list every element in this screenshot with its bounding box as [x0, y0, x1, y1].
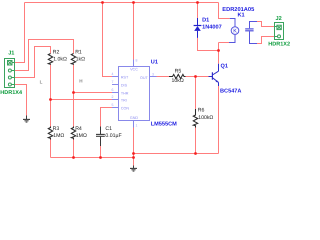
resistor R4 1MOhm — [71, 127, 75, 140]
junction D1 anode / collector node — [217, 49, 220, 52]
svg-text:7: 7 — [112, 80, 114, 84]
pin 8 VCC stub — [133, 60, 135, 67]
wire: top VCC rail — [25, 2, 219, 4]
svg-text:RST: RST — [121, 76, 129, 80]
resistor R1 1kOhm — [71, 54, 75, 65]
svg-text:4: 4 — [112, 72, 114, 76]
pin 3 OUT stub — [150, 76, 157, 78]
junction left rail at ground trunk — [132, 156, 135, 159]
svg-text:L: L — [40, 79, 43, 84]
svg-text:1.0kΩ: 1.0kΩ — [53, 57, 67, 63]
svg-text:R6: R6 — [198, 108, 205, 114]
svg-text:100kΩ: 100kΩ — [198, 115, 213, 121]
svg-text:3: 3 — [152, 72, 154, 76]
wire: R1 bottom to R4 top (THR net vertical) — [73, 65, 75, 127]
junction THR net at R1 column — [72, 91, 75, 94]
pin 7 DIS stub — [112, 84, 119, 86]
wire: Q1 collector up to coil/diode node — [218, 43, 220, 64]
wire: R3 bottom to left ground rail — [50, 140, 52, 158]
pin 5 CON stub — [112, 107, 119, 109]
svg-text:K1: K1 — [238, 13, 245, 19]
svg-text:6: 6 — [112, 88, 114, 92]
svg-text:2: 2 — [112, 95, 114, 99]
wire: ground trunk from U1 pin1 GND down to ground symbol — [133, 128, 135, 166]
svg-text:R5: R5 — [175, 68, 182, 74]
connector J1 HDR1X4 — [5, 59, 15, 88]
ground symbol (main ground) — [130, 166, 137, 172]
wire: rail to D1 cathode — [197, 3, 199, 19]
wire: J1 pin3 up and over to R2 top (L net) — [15, 47, 51, 78]
wire: rail jog down to relay coil K1 top — [219, 3, 230, 19]
pin 1 GND stub — [133, 121, 135, 128]
svg-text:U1: U1 — [151, 59, 158, 65]
junction on rail at VCC riser — [132, 1, 135, 4]
IC U1 LM555CM timer body — [112, 60, 157, 128]
connector J2 HDR1X2 — [275, 23, 284, 40]
svg-text:Q1: Q1 — [221, 63, 228, 69]
junction base node at R6 — [194, 75, 197, 78]
relay K1 coil — [229, 19, 239, 43]
resistor R2 1.0kOhm — [48, 54, 52, 65]
svg-text:TRI: TRI — [121, 99, 127, 103]
svg-text:HDR1X4: HDR1X4 — [0, 90, 23, 96]
wire: relay contact top to J2 pin1 — [257, 22, 275, 27]
svg-text:VCC: VCC — [130, 68, 138, 72]
svg-text:0.01µF: 0.01µF — [105, 133, 121, 139]
ground symbol (J1 pin4) — [23, 116, 30, 123]
wire: R5 to Q1 base node — [186, 76, 209, 78]
svg-text:1MΩ: 1MΩ — [76, 133, 87, 139]
svg-text:R3: R3 — [53, 126, 60, 132]
wire: J1 pin4 to ground — [15, 85, 27, 116]
wire: R2 bottom to R3 top (TRI net vertical) — [50, 65, 52, 127]
junction right rail at R6 — [194, 152, 197, 155]
wire: R4 bottom to left ground rail — [73, 140, 75, 158]
resistor R5 10kOhm — [169, 74, 186, 78]
pin 2 TRI stub — [112, 99, 119, 101]
wire: TRI net branch to U1 pin2 — [51, 99, 113, 101]
wire: C1 bottom to left ground rail — [100, 146, 102, 158]
capacitor C1 0.01uF — [96, 127, 105, 147]
diode D1 1N4007 — [194, 18, 202, 38]
svg-text:C1: C1 — [105, 126, 112, 132]
pin 6 THR stub — [112, 92, 119, 94]
wire: THR net branch to U1 pin6 — [74, 92, 113, 94]
svg-text:K: K — [233, 29, 237, 35]
junction left rail at C1 — [99, 156, 102, 159]
svg-text:1MΩ: 1MΩ — [53, 133, 64, 139]
svg-text:CON: CON — [121, 107, 130, 111]
svg-text:1N4007: 1N4007 — [202, 25, 222, 31]
junction left rail at R4 — [72, 156, 75, 159]
relay K1 contact — [245, 22, 257, 44]
wire: K1 coil bottom left to collector node — [219, 42, 230, 44]
svg-text:1: 1 — [136, 124, 138, 128]
junction on rail at RST riser — [101, 1, 104, 4]
svg-text:R2: R2 — [53, 50, 60, 56]
wire: J1 pin2 up and over to R1 top (H net) — [15, 40, 74, 71]
resistor R3 1MOhm — [48, 127, 52, 140]
wire: relay contact bottom to J2 pin2 — [257, 37, 275, 44]
junction TRI net at R2 column — [49, 98, 52, 101]
wire: base node down to R6 top — [195, 77, 197, 110]
wire: D1 anode down and right to collector node — [198, 38, 219, 51]
svg-text:10kΩ: 10kΩ — [172, 78, 184, 84]
svg-text:J2: J2 — [276, 16, 282, 22]
wire: bottom-right ground rail — [134, 153, 219, 155]
svg-text:D1: D1 — [202, 18, 209, 24]
transistor Q1 BC547A — [209, 64, 219, 86]
junction right rail at ground trunk — [132, 152, 135, 155]
svg-text:DIS: DIS — [121, 84, 128, 88]
wire: Q1 emitter down to right ground rail — [218, 86, 220, 154]
svg-text:J1: J1 — [8, 50, 14, 56]
svg-text:HDR1X2: HDR1X2 — [268, 42, 290, 48]
svg-text:R4: R4 — [75, 126, 82, 132]
wire: U1 pin4 RST up to rail — [103, 3, 113, 77]
resistor R6 100kOhm — [193, 109, 197, 128]
svg-text:THR: THR — [121, 92, 129, 96]
svg-text:R1: R1 — [75, 50, 82, 56]
junction on rail at D1 — [196, 1, 199, 4]
wire: R6 bottom to right ground rail — [195, 128, 197, 154]
svg-text:OUT: OUT — [140, 76, 149, 80]
pin 4 RST stub — [112, 76, 119, 78]
wire: bottom-left ground rail — [51, 157, 134, 159]
svg-text:GND: GND — [130, 116, 139, 120]
wire: U1 pin8 VCC up to rail — [133, 3, 135, 60]
wire: U1 pin5 CON to C1 top — [101, 108, 113, 127]
svg-text:1kΩ: 1kΩ — [76, 57, 85, 63]
svg-text:5: 5 — [112, 103, 114, 107]
wire: J1 pin1 to top VCC rail — [15, 3, 25, 63]
svg-text:BC547A: BC547A — [220, 88, 241, 94]
svg-text:8: 8 — [136, 59, 138, 63]
wire: U1 pin3 OUT to R5 — [157, 76, 170, 78]
svg-text:LM555CM: LM555CM — [151, 122, 177, 128]
